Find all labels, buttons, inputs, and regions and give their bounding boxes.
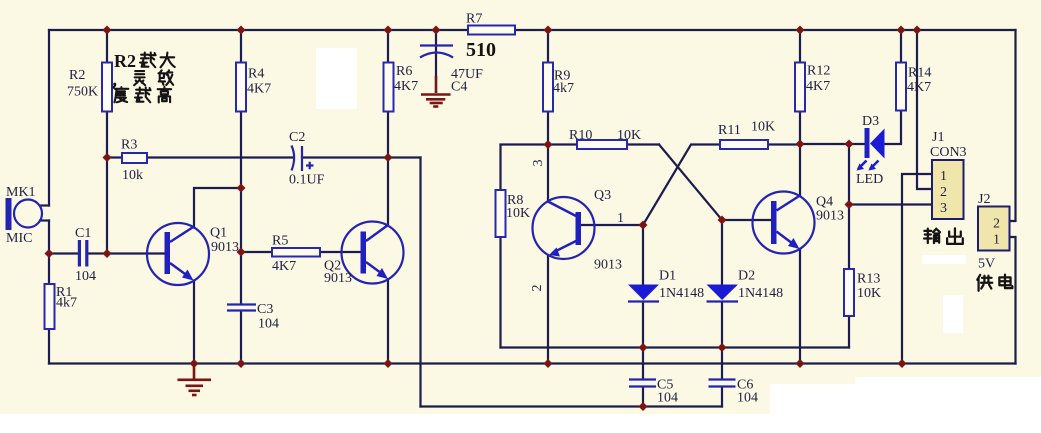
svg-text:1: 1 bbox=[940, 169, 947, 184]
resistor R8 bbox=[496, 190, 531, 237]
svg-text:C3: C3 bbox=[257, 302, 273, 317]
svg-text:3: 3 bbox=[940, 201, 947, 216]
svg-text:C4: C4 bbox=[451, 80, 467, 95]
junction VCC/R9 bbox=[544, 26, 553, 35]
svg-text:C1: C1 bbox=[75, 226, 91, 241]
svg-text:2: 2 bbox=[530, 285, 545, 292]
wire ground-return row y347 bbox=[501, 346, 850, 348]
capacitor C6 bbox=[709, 378, 759, 406]
junction GND/Q2-emitter bbox=[384, 359, 393, 368]
junction GND/J1-1 bbox=[898, 359, 907, 368]
svg-text:R14: R14 bbox=[908, 66, 931, 81]
junction D1/C5 return bbox=[639, 343, 648, 352]
junction VCC/R14 bbox=[897, 26, 906, 35]
wire x420 vertical bbox=[419, 158, 421, 407]
svg-text:Q1: Q1 bbox=[210, 226, 227, 241]
junction GND/Q3-emitter bbox=[544, 359, 553, 368]
svg-text:3: 3 bbox=[531, 160, 546, 167]
wire Q4 base bbox=[722, 219, 771, 221]
output label (Chinese) under J1 bbox=[924, 228, 963, 243]
wire Q4 emitter down bbox=[799, 249, 801, 364]
wire Q3 base bbox=[581, 224, 643, 226]
junction VCC/R2 bbox=[103, 26, 112, 35]
svg-text:R7: R7 bbox=[466, 12, 482, 27]
transistor Q3 mirrored bbox=[533, 188, 623, 273]
wire C5 bottom bbox=[642, 388, 644, 407]
wire diagonal Q3 node to R11 bbox=[643, 145, 720, 226]
svg-text:4k7: 4k7 bbox=[553, 81, 574, 96]
junction D2/C6 return bbox=[718, 343, 727, 352]
svg-text:MIC: MIC bbox=[6, 231, 32, 246]
resistor R5 bbox=[272, 234, 320, 275]
svg-text:4K7: 4K7 bbox=[247, 82, 271, 97]
diode D2 bbox=[707, 269, 784, 302]
wire R10 right bbox=[627, 143, 659, 145]
wire J1 pin2 from vcc bbox=[917, 30, 932, 189]
junction Q4-base/D2 bbox=[718, 216, 727, 225]
wire J1 pin3 row bbox=[849, 203, 932, 205]
svg-text:C2: C2 bbox=[289, 130, 305, 145]
svg-text:1: 1 bbox=[617, 211, 624, 226]
connector J2 bbox=[978, 192, 1010, 272]
junction VCC/C4 bbox=[432, 26, 441, 35]
resistor R6 bbox=[384, 63, 419, 112]
wire mic stub pin1 bbox=[40, 204, 49, 206]
resistor R10 bbox=[569, 128, 641, 149]
capacitor C4 electrolytic bbox=[420, 46, 483, 95]
junction R9/R8/R10/Q3-collector bbox=[544, 140, 553, 149]
svg-text:Q4: Q4 bbox=[816, 195, 833, 210]
svg-text:0.1UF: 0.1UF bbox=[289, 173, 325, 188]
resistor R2 bbox=[67, 63, 112, 112]
wire Q1 collector up bbox=[194, 188, 241, 228]
resistor R11 bbox=[718, 120, 775, 150]
wire LED row left bbox=[800, 143, 864, 145]
svg-text:2: 2 bbox=[993, 217, 1000, 232]
svg-text:104: 104 bbox=[737, 391, 758, 406]
resistor R7 bbox=[466, 12, 515, 62]
resistor R9 bbox=[543, 63, 574, 112]
svg-text:4K7: 4K7 bbox=[394, 79, 418, 94]
wire R13 column bbox=[848, 144, 850, 269]
wire R9 column bbox=[547, 30, 549, 145]
svg-text:9013: 9013 bbox=[324, 271, 352, 286]
svg-text:R6: R6 bbox=[396, 64, 412, 79]
white bottom-right region bbox=[770, 384, 1041, 433]
wire D1 top bbox=[642, 225, 644, 284]
junction GND/C3 bbox=[237, 359, 246, 368]
wire Q4 collector bbox=[799, 145, 801, 197]
svg-text:J1: J1 bbox=[932, 130, 944, 145]
wire J1 pin1 to ground bbox=[902, 174, 932, 364]
transistor Q1 bbox=[147, 223, 239, 285]
wire C3 bottom bbox=[240, 311, 242, 364]
wire C5 top bbox=[642, 348, 644, 379]
diode D1 bbox=[628, 269, 704, 302]
svg-text:D2: D2 bbox=[738, 269, 755, 284]
wire R3 row to C2 bbox=[107, 156, 292, 158]
wire R11 right bbox=[768, 143, 800, 145]
svg-text:10K: 10K bbox=[751, 120, 775, 135]
wire C4 top bbox=[435, 30, 437, 78]
junction Q1-collector/R4 bbox=[237, 184, 246, 193]
wire R12 column bbox=[799, 30, 801, 145]
wire R5 left bbox=[241, 251, 272, 253]
ground under Q1 emitter bbox=[178, 364, 212, 396]
wire D1 bottom bbox=[642, 303, 644, 348]
white patch near C2/R6 bbox=[316, 48, 357, 109]
wire R8 bottom bbox=[499, 237, 501, 348]
wire R13 bottom bbox=[848, 316, 850, 348]
svg-text:MK1: MK1 bbox=[6, 185, 36, 200]
wire bottom rail bbox=[49, 362, 1016, 364]
svg-text:Q3: Q3 bbox=[594, 188, 611, 203]
resistor R3 bbox=[121, 138, 147, 184]
resistor R13 bbox=[844, 269, 881, 316]
transistor Q4 bbox=[753, 192, 845, 254]
svg-text:D1: D1 bbox=[659, 269, 676, 284]
junction R13/J1-3 bbox=[845, 200, 854, 209]
junction VCC/R12 bbox=[796, 26, 805, 35]
svg-text:R13: R13 bbox=[857, 272, 880, 287]
LED D3 bbox=[856, 114, 885, 187]
resistor R14 bbox=[896, 63, 931, 111]
junction GND/Q1-emitter bbox=[190, 359, 199, 368]
svg-text:4K7: 4K7 bbox=[907, 80, 931, 95]
junction C2/R6/Q2-collector bbox=[384, 153, 393, 162]
wire C6 bottom bbox=[721, 388, 723, 407]
capacitor C3 bbox=[227, 302, 279, 332]
junction MIC/R1/C1 bbox=[45, 249, 54, 258]
svg-text:104: 104 bbox=[657, 391, 678, 406]
junction C5 bottom bbox=[639, 402, 648, 411]
wire R14 top bbox=[900, 30, 902, 62]
junction D3/R13 node bbox=[845, 140, 854, 149]
capacitor C2 bbox=[289, 130, 325, 188]
resistor R1 bbox=[45, 284, 78, 329]
svg-text:2: 2 bbox=[940, 185, 947, 200]
wire Q1 emitter down bbox=[193, 281, 195, 364]
wire LED right to R14 bbox=[885, 110, 901, 144]
svg-text:4k7: 4k7 bbox=[56, 296, 77, 311]
capacitor C5 bbox=[629, 378, 678, 406]
svg-text:1: 1 bbox=[993, 233, 1000, 248]
wire left vertical to mic pin1 bbox=[48, 30, 50, 206]
junction VCC/R4 bbox=[237, 26, 246, 35]
svg-text:104: 104 bbox=[258, 317, 279, 332]
capacitor C1 bbox=[75, 226, 96, 284]
resistor R12 bbox=[795, 63, 830, 112]
power supply label (Chinese) under J2 bbox=[977, 275, 1012, 291]
svg-text:4K7: 4K7 bbox=[806, 79, 830, 94]
wire mic stub pin2 bbox=[40, 219, 49, 221]
wire C1 left bbox=[49, 252, 78, 254]
resistor R4 bbox=[236, 63, 271, 112]
wire C6 top bbox=[721, 348, 723, 379]
svg-text:510: 510 bbox=[466, 39, 496, 61]
svg-text:9013: 9013 bbox=[594, 258, 622, 273]
wire R10 left bbox=[548, 143, 577, 145]
svg-text:1N4148: 1N4148 bbox=[738, 286, 783, 301]
svg-text:R12: R12 bbox=[807, 64, 830, 79]
junction R2/C1/Q1-base bbox=[103, 249, 112, 258]
wire Q3 emitter down bbox=[547, 255, 549, 364]
svg-text:CON3: CON3 bbox=[930, 145, 967, 160]
junction VCC/J1-2 bbox=[913, 26, 922, 35]
svg-text:D3: D3 bbox=[862, 114, 879, 129]
svg-text:R10: R10 bbox=[569, 128, 592, 143]
svg-text:R4: R4 bbox=[248, 67, 264, 82]
white bottom strip bbox=[0, 414, 1041, 433]
wire D2 top bbox=[721, 220, 723, 284]
wire Q2 emitter down bbox=[387, 280, 389, 364]
wire diagonal R10 to Q4 base bbox=[659, 145, 722, 221]
wire C1 right to Q1 base bbox=[88, 252, 165, 254]
wire Q3 collector bbox=[547, 145, 549, 202]
svg-text:104: 104 bbox=[75, 269, 96, 284]
svg-text:10K: 10K bbox=[506, 206, 530, 221]
wire bottom C5C6 row bbox=[421, 405, 723, 407]
wire right vertical vcc to J2 pin2 bbox=[1010, 30, 1016, 221]
svg-text:1N4148: 1N4148 bbox=[659, 286, 704, 301]
svg-text:R11: R11 bbox=[718, 123, 741, 138]
junction VCC/R6 bbox=[384, 26, 393, 35]
connector J1 CON3 bbox=[930, 130, 967, 219]
svg-text:LED: LED bbox=[856, 172, 883, 187]
svg-text:J2: J2 bbox=[978, 192, 990, 207]
wire C2 right to x420 corner bbox=[302, 156, 421, 158]
wire top rail bbox=[49, 29, 1016, 31]
svg-text:10K: 10K bbox=[617, 128, 641, 143]
wire R5 right to Q2 base bbox=[320, 251, 361, 253]
svg-text:5V: 5V bbox=[978, 257, 995, 272]
wire J2 pin1 to ground bbox=[1010, 237, 1016, 364]
svg-text:10k: 10k bbox=[122, 168, 143, 183]
transistor Q2 bbox=[324, 222, 404, 287]
svg-text:R5: R5 bbox=[272, 234, 288, 249]
svg-text:R2: R2 bbox=[114, 51, 136, 71]
wire R6 column to Q2 collector bbox=[387, 30, 389, 225]
svg-text:R3: R3 bbox=[121, 138, 137, 153]
wire R2 column bbox=[106, 30, 108, 254]
microphone MK1 bbox=[6, 185, 43, 246]
wire R4 column bbox=[240, 30, 242, 304]
wire R8 top to node bbox=[501, 145, 549, 191]
svg-text:9013: 9013 bbox=[816, 209, 844, 224]
junction R2/R3 bbox=[103, 153, 112, 162]
junction GND/Q4-emitter bbox=[796, 359, 805, 368]
svg-text:750K: 750K bbox=[67, 85, 98, 100]
white blob under J1 bbox=[922, 255, 966, 264]
ground under C4 bbox=[421, 76, 451, 107]
wire mic pin2 down to C1 node and R1 to bottom rail bbox=[48, 221, 50, 364]
junction node 1 Q3-base/D1 bbox=[639, 221, 648, 230]
svg-text:10K: 10K bbox=[857, 286, 881, 301]
svg-text:9013: 9013 bbox=[211, 240, 239, 255]
junction R11/R12/Q4-collector bbox=[796, 140, 805, 149]
svg-text:4K7: 4K7 bbox=[272, 259, 296, 274]
junction R4/C3/R5 bbox=[237, 248, 246, 257]
wire D2 bottom bbox=[721, 303, 723, 348]
svg-text:R2: R2 bbox=[69, 68, 85, 83]
annotation R2 larger = higher sensitivity (3 lines) bbox=[113, 51, 174, 102]
